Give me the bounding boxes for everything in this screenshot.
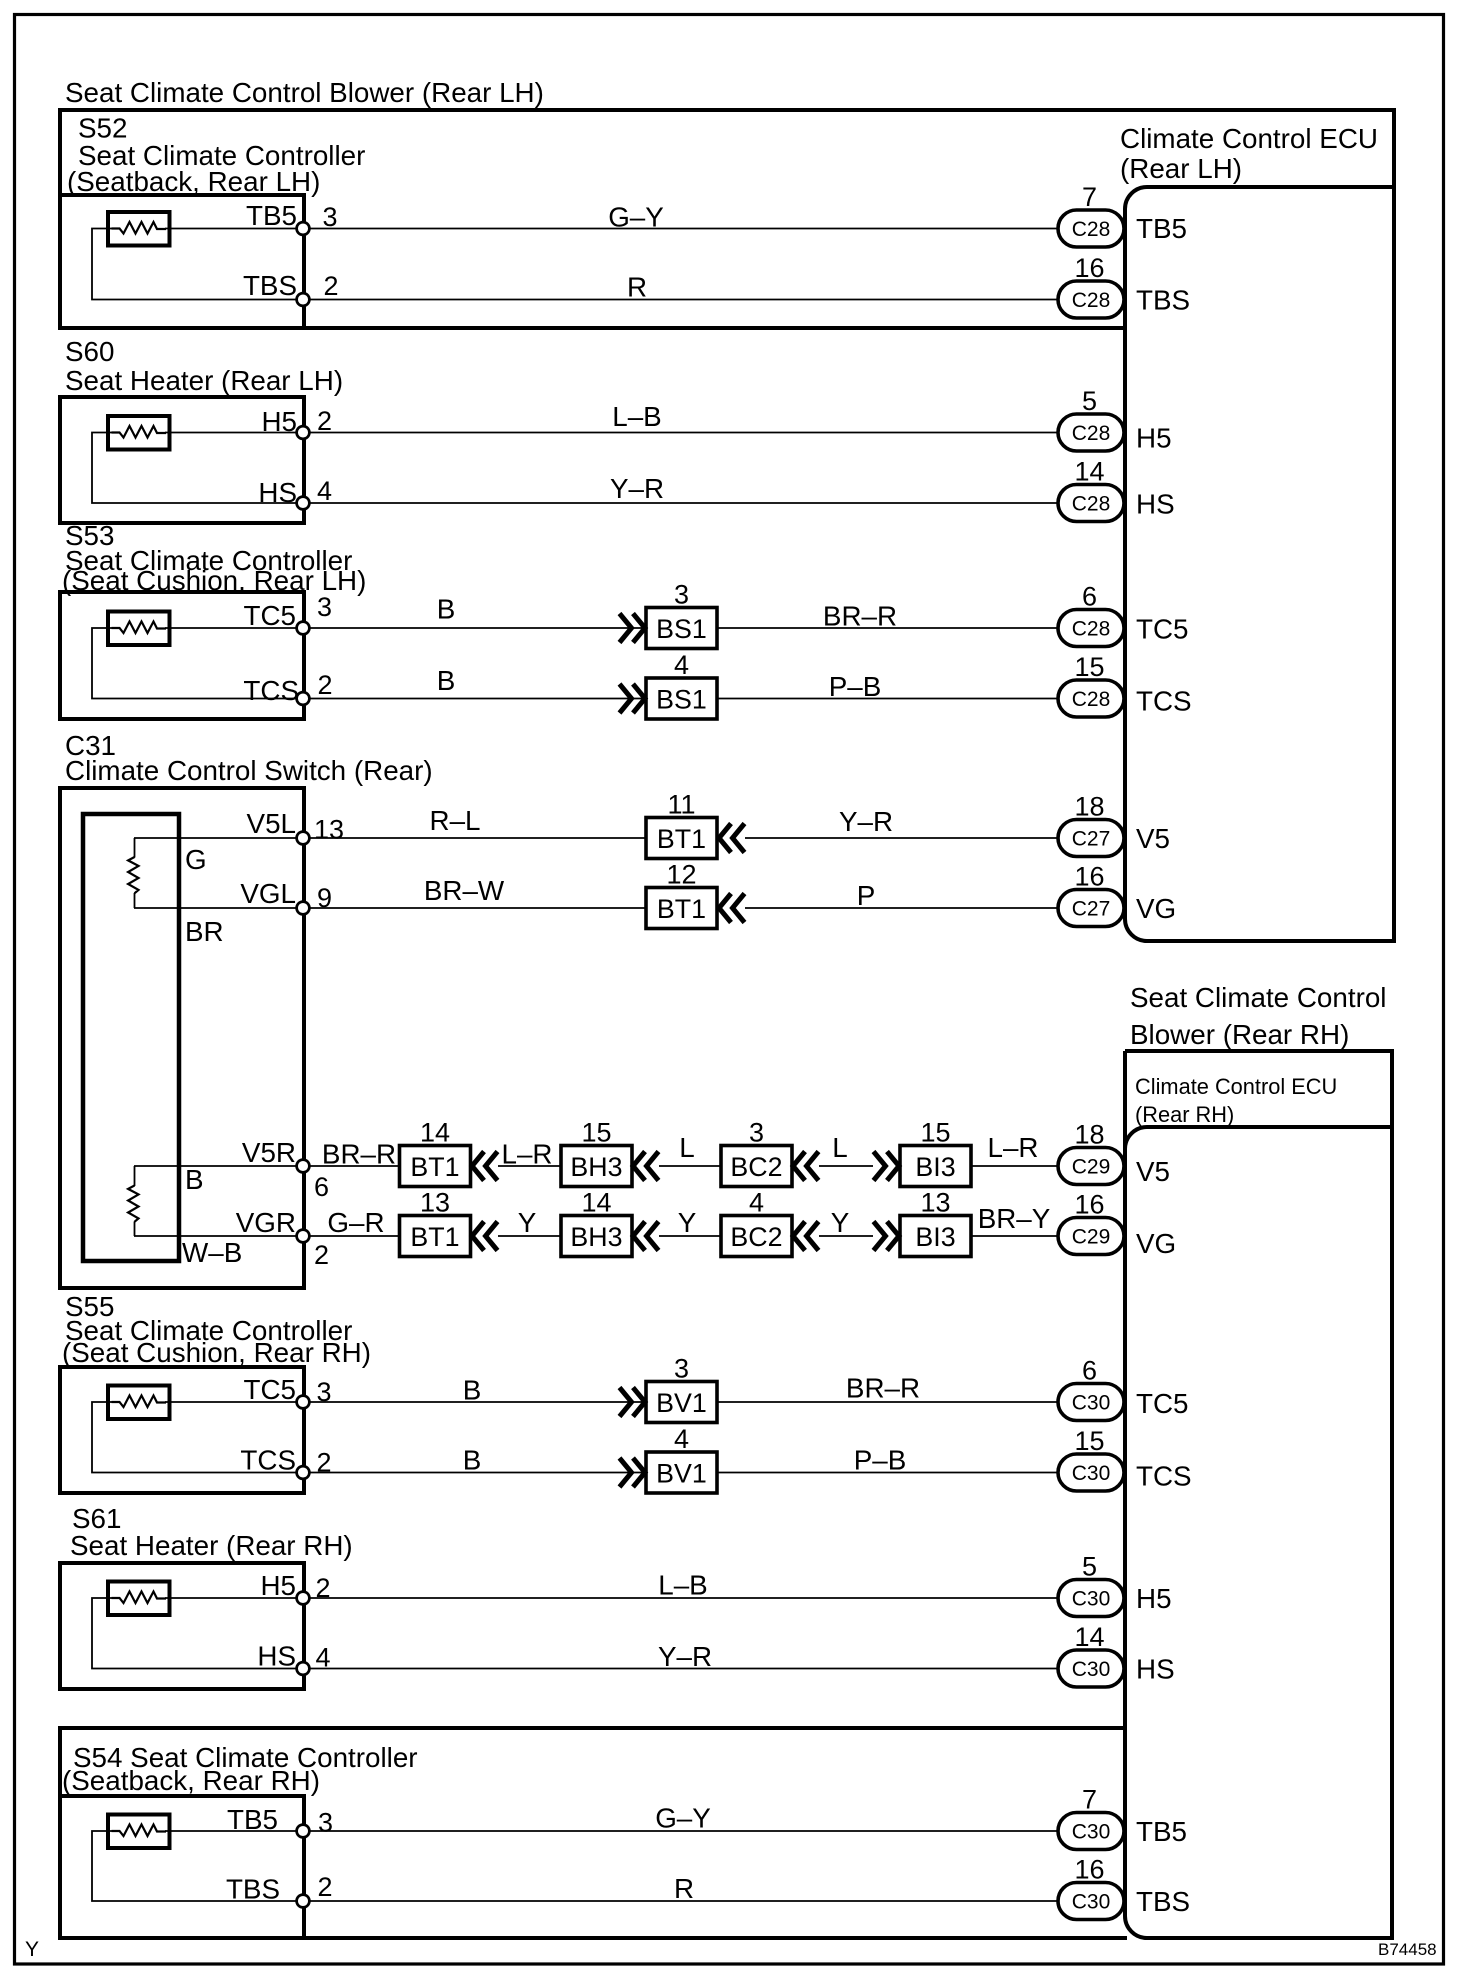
svg-text:4: 4 (316, 1643, 331, 1673)
svg-text:(Rear RH): (Rear RH) (1135, 1102, 1234, 1127)
connector BS1 pin3 (646, 608, 717, 649)
svg-text:TB5: TB5 (1136, 1816, 1187, 1847)
connector BH3 pin14 (561, 1216, 632, 1257)
svg-text:B: B (463, 1445, 482, 1476)
node V5R terminal (297, 1160, 310, 1173)
svg-text:L–R: L–R (502, 1139, 553, 1170)
svg-text:BR–R: BR–R (846, 1373, 920, 1404)
svg-text:H5: H5 (260, 1570, 296, 1601)
svg-text:G–R: G–R (327, 1207, 384, 1238)
svg-text:HS: HS (257, 1641, 296, 1672)
svg-text:TC5: TC5 (1136, 614, 1189, 645)
svg-text:5: 5 (1082, 386, 1097, 416)
svg-text:HS: HS (1136, 1654, 1175, 1685)
node TB5 terminal (S54) (297, 1825, 310, 1838)
svg-text:3: 3 (317, 1377, 332, 1407)
svg-text:HS: HS (258, 477, 297, 508)
wire VGR seg3 (659, 1235, 721, 1237)
svg-text:(Rear LH): (Rear LH) (1120, 153, 1242, 184)
svg-text:L: L (679, 1132, 694, 1163)
connector BI3 pin15 (900, 1146, 971, 1187)
resistor S60 heater element (108, 416, 170, 450)
svg-text:C30: C30 (1072, 1658, 1111, 1681)
svg-text:14: 14 (581, 1188, 611, 1218)
svg-text:BV1: BV1 (656, 1459, 707, 1489)
svg-text:P–B: P–B (854, 1445, 907, 1476)
connector chevrons after BC2 pin3 (793, 1152, 819, 1181)
svg-text:BS1: BS1 (656, 685, 707, 715)
svg-text:3: 3 (323, 202, 338, 232)
svg-text:TBS: TBS (226, 1874, 280, 1905)
svg-text:3: 3 (674, 580, 689, 610)
wire VGR seg4 (819, 1235, 873, 1237)
ECU (Rear LH) box (1125, 185, 1394, 941)
svg-text:(Seatback, Rear RH): (Seatback, Rear RH) (62, 1765, 320, 1796)
svg-text:C29: C29 (1072, 1156, 1111, 1179)
svg-text:BR–R: BR–R (823, 601, 897, 632)
svg-text:BR–R: BR–R (322, 1139, 396, 1170)
svg-text:16: 16 (1074, 253, 1104, 283)
connector C28 pin5 oval (1058, 414, 1124, 451)
svg-text:TCS: TCS (1136, 1461, 1192, 1492)
svg-text:HS: HS (1136, 489, 1175, 520)
svg-text:BT1: BT1 (410, 1152, 459, 1182)
connector C30 pin14 oval (1058, 1650, 1124, 1687)
svg-text:TB5: TB5 (227, 1804, 278, 1835)
node HS terminal (S61) (297, 1662, 310, 1675)
connector BS1 pin4 (646, 678, 717, 719)
svg-text:4: 4 (674, 650, 689, 680)
resistor C31 upper (variable) (128, 857, 138, 893)
svg-text:3: 3 (318, 1808, 333, 1838)
svg-text:B: B (437, 594, 456, 625)
C31 inner switch body box (83, 814, 179, 1261)
connector chevrons after BT1 pin11 (719, 824, 745, 853)
node H5 terminal (297, 426, 310, 439)
svg-text:L–B: L–B (612, 401, 661, 432)
wire TBSrh row (303, 1900, 1058, 1902)
svg-text:6: 6 (314, 1172, 329, 1202)
svg-text:Y–R: Y–R (610, 473, 664, 504)
wire V5R row left (134, 1165, 399, 1167)
svg-text:13: 13 (314, 815, 344, 845)
component S52 inner box (60, 195, 304, 328)
svg-text:C30: C30 (1072, 1821, 1111, 1844)
svg-text:Climate Control Switch (Rear): Climate Control Switch (Rear) (65, 755, 433, 786)
connector BT1 pin13 (400, 1216, 471, 1257)
svg-text:V5L: V5L (247, 808, 296, 839)
svg-text:3: 3 (317, 592, 332, 622)
node TCS terminal (297, 692, 310, 705)
node TC5 terminal (S55) (297, 1396, 310, 1409)
svg-text:C30: C30 (1072, 1392, 1111, 1415)
svg-text:Y: Y (518, 1207, 537, 1238)
svg-text:R: R (674, 1873, 694, 1904)
node V5L terminal (297, 832, 310, 845)
connector chevrons into BV1 pin3 (620, 1388, 646, 1417)
connector BH3 pin15 (561, 1146, 632, 1187)
connector C30 pin7 oval (1058, 1813, 1124, 1850)
connector C30 pin15 oval (1058, 1454, 1124, 1491)
svg-text:BH3: BH3 (570, 1152, 622, 1182)
connector BT1 pin12 (646, 888, 717, 929)
svg-text:4: 4 (317, 476, 332, 506)
node HS terminal (297, 497, 310, 510)
connector chevrons after BC2 pin4 (793, 1222, 819, 1251)
svg-text:(Seatback, Rear LH): (Seatback, Rear LH) (67, 166, 320, 197)
wire VGR row left (134, 1235, 399, 1237)
wire VGR row right (971, 1235, 1058, 1237)
wire H5rh row (165, 1597, 1058, 1599)
svg-text:V5: V5 (1136, 1156, 1170, 1187)
node TBS terminal (297, 293, 310, 306)
connector C30 pin5 oval (1058, 1580, 1124, 1617)
svg-text:VGR: VGR (236, 1207, 296, 1238)
connector C29 pin18 oval (1058, 1148, 1124, 1185)
svg-text:BT1: BT1 (410, 1222, 459, 1252)
svg-text:B74458: B74458 (1378, 1940, 1437, 1959)
svg-text:VGL: VGL (240, 878, 296, 909)
svg-text:Y–R: Y–R (658, 1641, 712, 1672)
node TC5 terminal (297, 622, 310, 635)
wire V5R seg4 (819, 1165, 873, 1167)
svg-text:P: P (857, 880, 876, 911)
connector chevrons after BH3 pin15 (633, 1152, 659, 1181)
node TCS terminal (S55) (297, 1466, 310, 1479)
svg-text:L–B: L–B (658, 1570, 707, 1601)
svg-text:BS1: BS1 (656, 614, 707, 644)
component S52 outer box (58, 110, 1394, 328)
svg-text:2: 2 (317, 1448, 332, 1478)
svg-text:18: 18 (1074, 1120, 1104, 1150)
wire V5R seg3 (659, 1165, 721, 1167)
wire V5R seg2 (498, 1165, 561, 1167)
svg-text:5: 5 (1082, 1552, 1097, 1582)
resistor S61 heater element (108, 1582, 170, 1616)
component S60 box (60, 397, 304, 523)
svg-text:G–Y: G–Y (608, 202, 664, 233)
svg-text:B: B (463, 1375, 482, 1406)
connector C29 pin16 oval (1058, 1218, 1124, 1255)
svg-text:4: 4 (749, 1188, 764, 1218)
svg-text:C28: C28 (1072, 618, 1111, 641)
connector C28 pin14 oval (1058, 485, 1124, 522)
svg-text:16: 16 (1074, 862, 1104, 892)
svg-text:TCS: TCS (240, 1445, 296, 1476)
connector BT1 pin11 (646, 818, 717, 859)
svg-text:Blower (Rear RH): Blower (Rear RH) (1130, 1019, 1349, 1050)
svg-text:3: 3 (749, 1118, 764, 1148)
svg-text:(Seat Cushion, Rear RH): (Seat Cushion, Rear RH) (62, 1337, 371, 1368)
svg-text:C28: C28 (1072, 218, 1111, 241)
svg-text:BI3: BI3 (915, 1222, 955, 1252)
svg-text:BR–Y: BR–Y (978, 1203, 1051, 1234)
svg-text:BT1: BT1 (657, 894, 706, 924)
svg-text:TC5: TC5 (243, 600, 296, 631)
ECU (Rear RH) inner top line (1125, 1127, 1392, 1149)
svg-text:C28: C28 (1072, 289, 1111, 312)
wire VGR seg2 (498, 1235, 561, 1237)
svg-text:BC2: BC2 (730, 1152, 782, 1182)
svg-text:4: 4 (674, 1424, 689, 1454)
wire TB5rh row (165, 1830, 1058, 1832)
svg-text:TBS: TBS (1136, 285, 1190, 316)
ECU (Rear RH) outer box (1125, 1051, 1392, 1938)
svg-text:14: 14 (420, 1118, 450, 1148)
svg-text:2: 2 (314, 1240, 329, 1270)
connector chevrons into BS1 pin3 (620, 614, 646, 643)
wire TCS row left (303, 698, 646, 700)
svg-text:3: 3 (674, 1354, 689, 1384)
wire S53 internal loop (92, 628, 303, 699)
connector chevrons into BV1 pin4 (620, 1458, 646, 1487)
resistor C31 lower (variable) (128, 1186, 138, 1222)
wire S54 internal loop (92, 1831, 303, 1901)
wire V5R row right (971, 1165, 1058, 1167)
svg-text:TBS: TBS (1136, 1886, 1190, 1917)
wire TC5 row left (165, 627, 646, 629)
wire S55 internal loop (92, 1402, 303, 1473)
svg-text:VG: VG (1136, 1228, 1176, 1259)
component S61 box (60, 1563, 304, 1689)
svg-text:7: 7 (1082, 182, 1097, 212)
svg-text:L: L (832, 1132, 847, 1163)
svg-text:Y: Y (831, 1207, 850, 1238)
wire S60 internal loop (92, 433, 303, 504)
svg-text:13: 13 (420, 1188, 450, 1218)
svg-text:C27: C27 (1072, 898, 1111, 921)
svg-text:11: 11 (667, 790, 695, 820)
svg-text:16: 16 (1074, 1855, 1104, 1885)
wire V5L row left (134, 837, 646, 839)
svg-text:9: 9 (317, 883, 332, 913)
wire TB5 row (165, 228, 1058, 230)
wire C31 lower resistor stubs (134, 1166, 136, 1186)
connector chevrons after BT1 pin13 (472, 1222, 498, 1251)
connector chevrons after BT1 pin12 (719, 894, 745, 923)
svg-text:Y: Y (25, 1938, 39, 1961)
svg-text:C30: C30 (1072, 1588, 1111, 1611)
svg-text:15: 15 (581, 1118, 611, 1148)
component S53 box (60, 592, 304, 719)
svg-text:2: 2 (317, 406, 332, 436)
connector BT1 pin14 (400, 1146, 471, 1187)
svg-text:C29: C29 (1072, 1226, 1111, 1249)
svg-text:P–B: P–B (829, 671, 882, 702)
node VGR terminal (297, 1230, 310, 1243)
svg-text:2: 2 (316, 1573, 331, 1603)
svg-text:G: G (185, 844, 207, 875)
node TB5 terminal (297, 222, 310, 235)
svg-text:H5: H5 (1136, 423, 1172, 454)
connector chevrons into BI3 pin13 (874, 1222, 900, 1251)
svg-text:13: 13 (920, 1188, 950, 1218)
resistor S52 heater element (108, 212, 170, 246)
svg-text:TCS: TCS (1136, 686, 1192, 717)
svg-text:TBS: TBS (243, 270, 297, 301)
svg-text:7: 7 (1082, 1785, 1097, 1815)
svg-text:C28: C28 (1072, 688, 1111, 711)
connector chevrons into BI3 pin15 (874, 1152, 900, 1181)
svg-text:BI3: BI3 (915, 1152, 955, 1182)
svg-text:Seat Climate Control Blower (R: Seat Climate Control Blower (Rear LH) (65, 77, 544, 108)
svg-text:C30: C30 (1072, 1891, 1111, 1914)
svg-text:C30: C30 (1072, 1462, 1111, 1485)
wire TBS row (303, 299, 1058, 301)
svg-text:BR: BR (185, 916, 224, 947)
svg-text:Seat Climate Control: Seat Climate Control (1130, 982, 1386, 1013)
connector C28 pin15 oval (1058, 680, 1124, 717)
wire TCS row right (717, 698, 1058, 700)
wire TC5rh row left (165, 1401, 646, 1403)
connector BC2 pin4 (721, 1216, 792, 1257)
connector BV1 pin4 (646, 1452, 717, 1493)
connector chevrons after BT1 pin14 (472, 1152, 498, 1181)
wire VGL row left (134, 907, 646, 909)
connector BV1 pin3 (646, 1382, 717, 1423)
svg-text:S60: S60 (65, 336, 114, 367)
wire TCSrh row left (303, 1472, 646, 1474)
svg-text:BC2: BC2 (730, 1222, 782, 1252)
svg-text:TB5: TB5 (246, 200, 297, 231)
wire C31 upper resistor stubs (134, 838, 136, 858)
wire HS row (303, 502, 1058, 504)
svg-text:15: 15 (1074, 1426, 1104, 1456)
svg-text:V5: V5 (1136, 823, 1170, 854)
svg-text:6: 6 (1082, 1356, 1097, 1386)
svg-text:Climate Control ECU: Climate Control ECU (1135, 1074, 1337, 1099)
svg-text:VG: VG (1136, 893, 1176, 924)
connector C28 pin16 oval (1058, 281, 1124, 318)
svg-text:14: 14 (1074, 1622, 1104, 1652)
svg-text:2: 2 (318, 1872, 333, 1902)
svg-text:H5: H5 (1136, 1583, 1172, 1614)
connector C30 pin6 oval (1058, 1384, 1124, 1421)
connector C27 pin18 oval (1058, 820, 1124, 857)
connector C28 pin6 oval (1058, 610, 1124, 647)
svg-text:TCS: TCS (243, 675, 299, 706)
svg-text:Seat Heater (Rear RH): Seat Heater (Rear RH) (70, 1530, 353, 1561)
svg-text:TC5: TC5 (243, 1374, 296, 1405)
svg-text:12: 12 (666, 860, 696, 890)
connector chevrons after BH3 pin14 (633, 1222, 659, 1251)
svg-text:TB5: TB5 (1136, 213, 1187, 244)
wire S52 internal loop (92, 229, 303, 300)
svg-text:C28: C28 (1072, 422, 1111, 445)
svg-text:H5: H5 (261, 406, 297, 437)
svg-text:G–Y: G–Y (655, 1803, 711, 1834)
svg-text:BH3: BH3 (570, 1222, 622, 1252)
wire TCSrh row right (717, 1472, 1058, 1474)
wire V5L row right (745, 837, 1058, 839)
svg-text:BR–W: BR–W (424, 875, 505, 906)
node VGL terminal (297, 902, 310, 915)
node TBS terminal (S54) (297, 1895, 310, 1908)
svg-text:Y–R: Y–R (839, 806, 893, 837)
svg-text:TC5: TC5 (1136, 1388, 1189, 1419)
wire VGL row right (745, 907, 1058, 909)
wire H5 row (165, 432, 1058, 434)
svg-text:Seat Heater (Rear LH): Seat Heater (Rear LH) (65, 365, 343, 396)
svg-text:Y: Y (678, 1207, 697, 1238)
wire HSrh row (303, 1668, 1058, 1670)
component S55 box (60, 1367, 304, 1493)
svg-text:BT1: BT1 (657, 824, 706, 854)
svg-text:V5R: V5R (242, 1137, 296, 1168)
component S54 outer box (60, 1728, 1125, 1936)
svg-text:C27: C27 (1072, 828, 1111, 851)
resistor S55 heater element (108, 1386, 170, 1420)
svg-text:C28: C28 (1072, 493, 1111, 516)
svg-text:14: 14 (1074, 457, 1104, 487)
resistor S53 heater element (108, 612, 170, 646)
svg-text:2: 2 (324, 271, 339, 301)
svg-text:B: B (185, 1164, 204, 1195)
wire TC5rh row right (717, 1401, 1058, 1403)
node H5 terminal (S61) (297, 1592, 310, 1605)
svg-text:Climate Control ECU: Climate Control ECU (1120, 123, 1378, 154)
svg-text:S52: S52 (78, 113, 127, 144)
connector C30 pin16 oval (1058, 1883, 1124, 1920)
svg-text:R: R (627, 272, 647, 303)
svg-text:R–L: R–L (430, 805, 481, 836)
connector BI3 pin13 (900, 1216, 971, 1257)
connector C27 pin16 oval (1058, 890, 1124, 927)
component C31 box (60, 788, 304, 1288)
connector C28 pin7 oval (1058, 210, 1124, 247)
component S54 inner box (58, 1796, 1127, 1938)
svg-text:B: B (437, 665, 456, 696)
svg-text:18: 18 (1074, 792, 1104, 822)
wire TC5 row right (717, 627, 1058, 629)
svg-text:BV1: BV1 (656, 1388, 707, 1418)
svg-text:L–R: L–R (988, 1132, 1039, 1163)
svg-text:15: 15 (920, 1118, 950, 1148)
svg-text:W–B: W–B (182, 1237, 242, 1268)
wire S61 internal loop (92, 1598, 303, 1669)
connector chevrons into BS1 pin4 (620, 684, 646, 713)
svg-text:2: 2 (318, 670, 333, 700)
resistor S54 heater element (108, 1815, 170, 1849)
connector BC2 pin3 (721, 1146, 792, 1187)
svg-text:15: 15 (1074, 652, 1104, 682)
svg-text:6: 6 (1082, 582, 1097, 612)
svg-text:16: 16 (1074, 1190, 1104, 1220)
